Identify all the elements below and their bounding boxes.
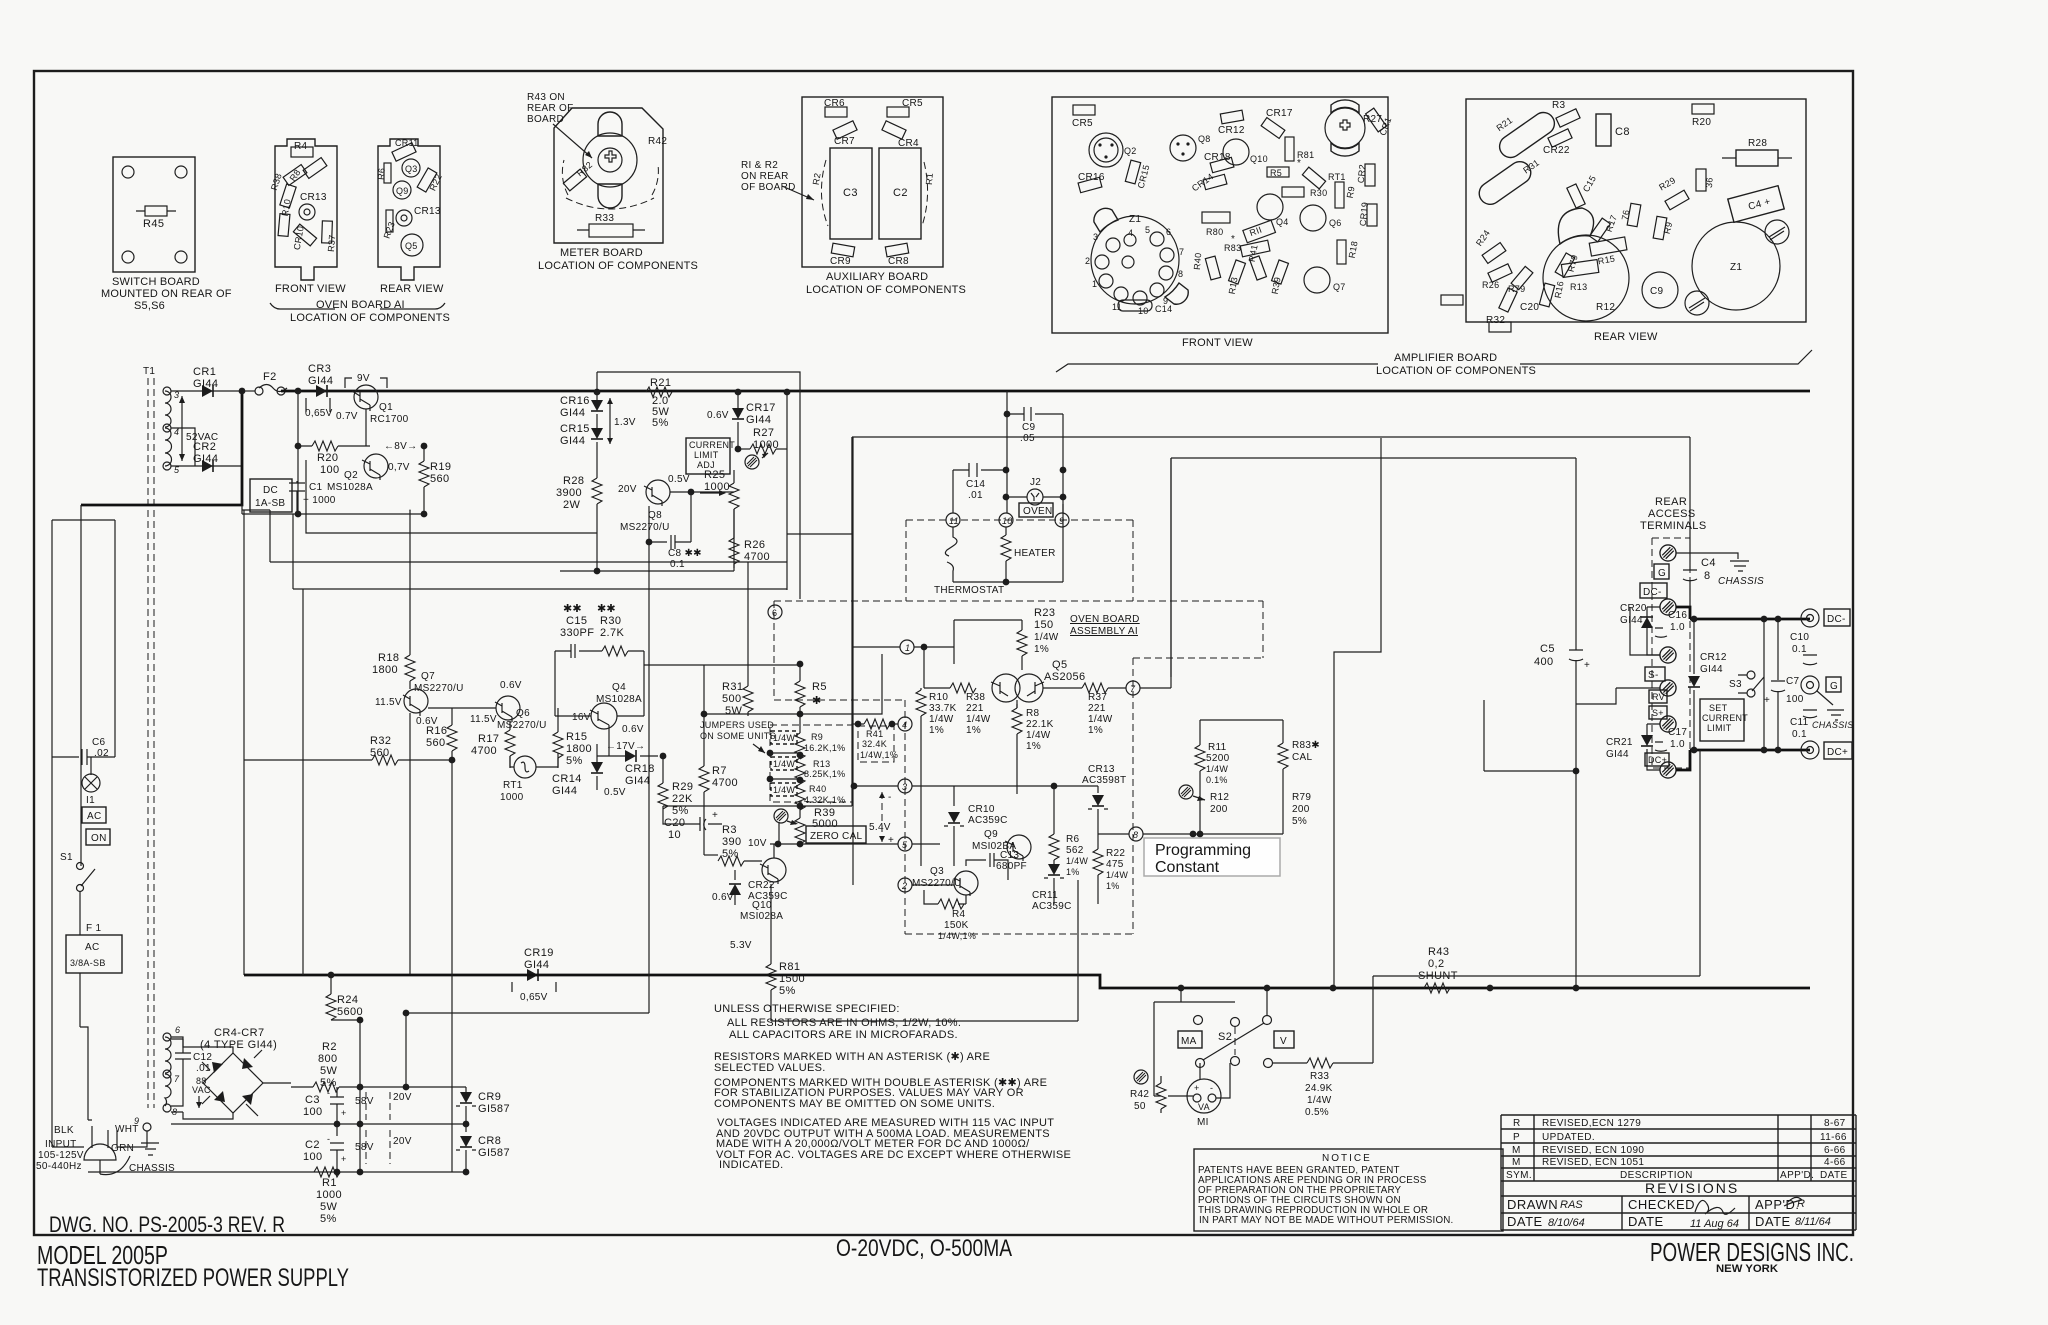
svg-text:CR18: CR18	[625, 763, 655, 775]
svg-text:10V: 10V	[748, 838, 767, 849]
svg-text:✱✱: ✱✱	[597, 603, 616, 615]
svg-text:MS1028A: MS1028A	[596, 694, 642, 705]
OVEN label box	[1019, 503, 1053, 517]
resistor R21 pill	[1495, 108, 1558, 162]
svg-text:4: 4	[902, 720, 907, 730]
resistor R81	[1285, 137, 1294, 161]
svg-text:GI44: GI44	[552, 785, 577, 797]
svg-text:11-66: 11-66	[1820, 1132, 1847, 1143]
svg-text:8.25K,1%: 8.25K,1%	[804, 769, 845, 779]
svg-text:C9: C9	[1650, 286, 1664, 297]
svg-text:VA: VA	[1198, 1102, 1210, 1112]
input plug	[84, 1144, 116, 1160]
svg-text:CR11: CR11	[1032, 890, 1058, 901]
svg-text:CR2: CR2	[1356, 164, 1368, 184]
diode CR17	[737, 392, 739, 408]
svg-text:7: 7	[1179, 247, 1184, 257]
svg-text:Q5: Q5	[405, 241, 418, 251]
boxed DC-	[1640, 583, 1667, 598]
bottom wire y1172	[88, 1171, 466, 1173]
oven bottom wire	[771, 880, 1078, 1021]
svg-text:R7: R7	[712, 765, 727, 777]
transistor Q1	[354, 385, 378, 409]
svg-text:4.32K,1%: 4.32K,1%	[804, 795, 845, 805]
svg-text:CR9: CR9	[478, 1091, 501, 1103]
left return vertical	[302, 589, 304, 975]
svg-text:20V: 20V	[393, 1136, 412, 1147]
svg-text:100: 100	[320, 464, 340, 476]
resistor R41 dashed box	[858, 726, 894, 762]
potentiometer R27	[1325, 108, 1365, 148]
svg-text:Q9: Q9	[396, 186, 409, 196]
svg-text:R20: R20	[1692, 117, 1711, 128]
svg-text:5600: 5600	[337, 1006, 363, 1018]
transistor Q5	[401, 234, 423, 256]
svg-text:IN PART MAY NOT BE MADE WITHOU: IN PART MAY NOT BE MADE WITHOUT PERMISSI…	[1199, 1215, 1453, 1226]
long vertical to zero cal row	[663, 437, 852, 806]
svg-text:OF BOARD: OF BOARD	[741, 182, 796, 193]
resistor R33	[589, 224, 633, 237]
svg-text:(4 TYPE GI44): (4 TYPE GI44)	[200, 1039, 277, 1051]
svg-text:5: 5	[902, 840, 908, 850]
resistor R8	[1016, 704, 1018, 708]
svg-text:4: 4	[1128, 228, 1133, 238]
svg-text:R17: R17	[478, 733, 499, 745]
screw	[1765, 220, 1789, 244]
svg-text:11.5V: 11.5V	[375, 697, 402, 708]
transistor Q3	[912, 884, 954, 886]
svg-text:CR21: CR21	[1606, 737, 1633, 748]
svg-text:CR16: CR16	[1078, 172, 1105, 183]
pin 3	[898, 779, 912, 793]
svg-text:Z1: Z1	[1129, 214, 1141, 225]
svg-text:TERMINALS: TERMINALS	[1640, 520, 1707, 532]
zener CR11	[1053, 860, 1055, 864]
svg-text:CR10: CR10	[968, 804, 995, 815]
resistor R33	[1273, 1062, 1307, 1064]
svg-text:R5: R5	[1270, 168, 1282, 178]
svg-text:5200: 5200	[1206, 753, 1230, 764]
svg-text:Q8: Q8	[1198, 134, 1211, 144]
capacitor C4	[1689, 437, 1691, 570]
capacitor C9	[1642, 272, 1678, 308]
svg-text:DC: DC	[263, 485, 278, 496]
svg-text:CR4-CR7: CR4-CR7	[214, 1027, 264, 1039]
svg-text:4700: 4700	[712, 777, 738, 789]
svg-text:C20: C20	[664, 817, 685, 829]
svg-text:800: 800	[318, 1053, 338, 1065]
resistor R83	[1240, 240, 1270, 257]
svg-text:F 1: F 1	[86, 923, 101, 934]
mid wire y1124	[171, 1123, 466, 1125]
svg-text:5%: 5%	[566, 755, 583, 767]
svg-text:CR13: CR13	[414, 206, 441, 217]
CURRENT LIMIT ADJ box	[686, 438, 730, 474]
capacitor C8	[1596, 114, 1611, 146]
resistor R24	[328, 972, 335, 979]
resistor R83 CAL	[1282, 720, 1284, 743]
svg-text:CR17: CR17	[1266, 108, 1293, 119]
svg-text:C9: C9	[1022, 422, 1036, 433]
svg-text:AC: AC	[85, 942, 100, 953]
svg-text:33.7K: 33.7K	[929, 703, 957, 714]
svg-text:8: 8	[1178, 269, 1183, 279]
svg-text:C6: C6	[92, 737, 106, 748]
svg-text:CR7: CR7	[834, 136, 855, 147]
svg-text:50-440Hz: 50-440Hz	[36, 1161, 82, 1172]
svg-text:C3: C3	[305, 1094, 320, 1106]
resistor R5	[1267, 167, 1289, 177]
diode CR12	[1220, 110, 1243, 124]
svg-text:1/4W: 1/4W	[773, 759, 795, 769]
svg-text:5%: 5%	[652, 417, 669, 429]
svg-text:1: 1	[905, 643, 910, 653]
svg-text:HEATER: HEATER	[1014, 548, 1056, 559]
wire H2 top right	[852, 436, 1690, 438]
wire bridge output row	[263, 1083, 291, 1087]
svg-text:1000: 1000	[316, 1189, 342, 1201]
svg-text:CR8: CR8	[478, 1135, 501, 1147]
transistor Q4	[1257, 194, 1283, 220]
left long verticals	[52, 505, 115, 1147]
svg-text:475: 475	[1106, 859, 1124, 870]
svg-text:GI44: GI44	[625, 775, 650, 787]
svg-text:GI44: GI44	[1700, 664, 1723, 675]
svg-text:JUMPERS USED: JUMPERS USED	[700, 720, 774, 730]
svg-text:0.7V: 0.7V	[336, 411, 358, 422]
svg-text:R80: R80	[1206, 227, 1223, 237]
svg-text:.01: .01	[968, 490, 983, 501]
jumper 1/4W labels	[771, 731, 797, 744]
svg-text:BLK: BLK	[54, 1125, 74, 1136]
svg-text:330PF: 330PF	[560, 627, 594, 639]
svg-text:CR18: CR18	[1204, 152, 1231, 163]
svg-text:R: R	[1513, 1118, 1521, 1129]
svg-text:SWITCH BOARD: SWITCH BOARD	[112, 276, 200, 288]
svg-text:0.5%: 0.5%	[1305, 1107, 1329, 1118]
diode CR2	[171, 465, 242, 467]
capacitor C9	[1004, 411, 1011, 418]
capacitor C2	[879, 148, 921, 239]
svg-text:1/4W: 1/4W	[1066, 856, 1088, 866]
resistor R32	[1489, 322, 1511, 332]
svg-text:8: 8	[1704, 570, 1711, 582]
0.65V annotation	[306, 398, 330, 412]
svg-text:RT1: RT1	[503, 780, 523, 791]
svg-text:R16: R16	[426, 725, 447, 737]
svg-text:CR4: CR4	[898, 138, 919, 149]
svg-text:5W: 5W	[320, 1201, 338, 1213]
svg-text:.05: .05	[1020, 433, 1035, 444]
connector pins 11 10 9	[946, 513, 960, 527]
svg-text:16V: 16V	[572, 712, 591, 723]
svg-text:R4: R4	[294, 141, 308, 152]
svg-text:GI44: GI44	[1606, 749, 1629, 760]
resistor CR2	[1365, 164, 1375, 186]
svg-text:REAR VIEW: REAR VIEW	[380, 283, 444, 295]
fuse F2	[242, 390, 255, 392]
svg-text:100: 100	[1786, 694, 1804, 705]
svg-text:0.1: 0.1	[1792, 644, 1807, 655]
svg-text:Q10: Q10	[752, 900, 772, 911]
svg-text:4-66: 4-66	[1824, 1157, 1846, 1168]
thermostat	[945, 527, 957, 582]
resistor R37	[1043, 687, 1082, 689]
resistor R21	[646, 387, 672, 397]
svg-text:CR16: CR16	[560, 395, 590, 407]
svg-text:MS1028A: MS1028A	[327, 482, 373, 493]
switch S2	[1154, 988, 1267, 1062]
svg-text:FRONT VIEW: FRONT VIEW	[275, 283, 346, 295]
svg-text:LIMIT: LIMIT	[1707, 723, 1732, 733]
vertical to C8 row from R27 side	[786, 392, 788, 590]
svg-text:MSI028A: MSI028A	[740, 911, 783, 922]
svg-text:Q8: Q8	[648, 510, 662, 521]
svg-text:CR14: CR14	[552, 773, 582, 785]
oven board rear outline	[378, 139, 440, 280]
resistor R38	[280, 184, 296, 208]
svg-text:1%: 1%	[1066, 867, 1080, 877]
svg-text:S5,S6: S5,S6	[134, 300, 165, 312]
resistor R17	[509, 722, 511, 730]
resistor R32	[244, 759, 372, 761]
svg-text:CURRENT: CURRENT	[1702, 713, 1748, 723]
svg-text:R24: R24	[337, 994, 358, 1006]
transistor Q9	[1007, 835, 1031, 859]
svg-text:0,2: 0,2	[1428, 958, 1445, 970]
staircase x1381 x1334	[1334, 438, 1381, 988]
svg-text:0,65V: 0,65V	[305, 408, 333, 419]
svg-text:CHASSIS: CHASSIS	[1718, 576, 1764, 587]
svg-text:DATE: DATE	[1755, 1214, 1791, 1229]
diode CR18	[625, 750, 636, 762]
svg-text:100: 100	[303, 1106, 323, 1118]
wire pin3	[854, 785, 898, 787]
svg-text:R19: R19	[430, 461, 451, 473]
svg-text:CR9: CR9	[830, 256, 851, 267]
heavy junction bus	[241, 391, 244, 466]
resistor R28	[1736, 150, 1778, 166]
auxiliary board outline	[802, 97, 943, 267]
svg-text:COMPONENTS MAY BE OMITTED ON S: COMPONENTS MAY BE OMITTED ON SOME UNITS.	[714, 1098, 995, 1110]
svg-text:560: 560	[430, 473, 450, 485]
svg-text:CR13: CR13	[1088, 764, 1115, 775]
svg-text:AC: AC	[87, 811, 102, 822]
svg-text:LIMIT: LIMIT	[694, 450, 719, 460]
svg-text:562: 562	[1066, 845, 1084, 856]
resistor R16	[1539, 283, 1554, 307]
pin 8	[1129, 827, 1143, 841]
svg-text:1/4W,1%: 1/4W,1%	[860, 750, 898, 760]
svg-text:Q1: Q1	[379, 402, 393, 413]
long vertical from R16	[451, 760, 453, 1172]
svg-text:DRAWN: DRAWN	[1507, 1197, 1558, 1212]
svg-text:R10: R10	[929, 692, 948, 703]
svg-text:7: 7	[174, 1074, 180, 1084]
capacitor C15	[1567, 184, 1585, 208]
svg-text:R4: R4	[952, 909, 966, 920]
svg-text:G: G	[1658, 568, 1666, 579]
svg-text:1000: 1000	[500, 792, 524, 803]
svg-text:1/4W: 1/4W	[1026, 730, 1051, 741]
svg-text:GI587: GI587	[478, 1103, 510, 1115]
potentiometer R12	[1179, 785, 1193, 799]
svg-text:C14: C14	[966, 479, 985, 490]
svg-text:CAL: CAL	[1292, 752, 1312, 763]
transistor Q10	[1223, 139, 1249, 165]
svg-text:NEW YORK: NEW YORK	[1716, 1263, 1778, 1275]
svg-text:1%: 1%	[1026, 741, 1041, 752]
svg-text:R38: R38	[966, 692, 985, 703]
svg-text:C3: C3	[843, 187, 858, 199]
svg-text:1%: 1%	[966, 725, 981, 736]
resistor R23	[386, 210, 393, 232]
svg-text:221: 221	[1088, 703, 1106, 714]
svg-text:0.5V: 0.5V	[604, 787, 626, 798]
svg-text:105-125V: 105-125V	[38, 1150, 84, 1161]
svg-text:RAS: RAS	[1560, 1199, 1583, 1211]
svg-text:+: +	[341, 1108, 347, 1118]
svg-text:UNLESS OTHERWISE SPECIFIED:: UNLESS OTHERWISE SPECIFIED:	[714, 1003, 900, 1015]
resistor R29	[1665, 190, 1689, 210]
wire pin5	[770, 843, 898, 845]
heavy bottom bus	[244, 975, 1810, 988]
svg-text:C20: C20	[1520, 302, 1539, 313]
svg-text:3: 3	[902, 782, 907, 792]
svg-text:1/4W: 1/4W	[773, 733, 795, 743]
svg-text:DATE: DATE	[1628, 1214, 1664, 1229]
svg-text:R42: R42	[1130, 1089, 1149, 1100]
potentiometer R42	[1134, 1070, 1148, 1084]
svg-text:ASSEMBLY AI: ASSEMBLY AI	[1070, 626, 1138, 637]
resistor R6	[1053, 786, 1055, 834]
svg-text:Q5: Q5	[1052, 659, 1067, 671]
svg-text:0.1%: 0.1%	[1206, 775, 1228, 785]
svg-text:LOCATION OF COMPONENTS: LOCATION OF COMPONENTS	[538, 260, 698, 272]
diode CR5	[1073, 105, 1095, 115]
svg-text:221: 221	[966, 703, 984, 714]
svg-text:-: -	[327, 1134, 330, 1144]
section box	[597, 372, 800, 599]
dashed R1	[922, 162, 928, 226]
switch board outline	[113, 157, 195, 272]
zener CR10	[953, 786, 955, 806]
58V 20V arrows row1	[366, 1092, 390, 1120]
svg-text:5: 5	[1145, 225, 1150, 235]
pin 6	[768, 605, 782, 619]
58V 20V arrows row2	[366, 1130, 390, 1164]
svg-text:MS2270/U: MS2270/U	[497, 720, 547, 731]
svg-text:R22: R22	[1106, 848, 1125, 859]
meter board outline	[554, 108, 663, 243]
diode CR18	[1210, 157, 1234, 172]
resistor R3	[1556, 109, 1580, 127]
svg-text:LOCATION OF COMPONENTS: LOCATION OF COMPONENTS	[1376, 365, 1536, 377]
svg-text:MS2270/U: MS2270/U	[620, 522, 670, 533]
potentiometer R39 ZERO CAL	[774, 809, 788, 823]
svg-text:UPDATED.: UPDATED.	[1542, 1132, 1595, 1143]
svg-text:CR17: CR17	[746, 402, 776, 414]
resistor R26	[733, 509, 735, 538]
svg-text:10: 10	[668, 829, 681, 841]
svg-text:1/4W: 1/4W	[1088, 714, 1113, 725]
svg-text:6: 6	[772, 608, 777, 618]
svg-text:R32: R32	[370, 735, 391, 747]
resistor R15	[557, 708, 559, 732]
svg-text:200: 200	[1210, 804, 1228, 815]
screw terminal S+	[1660, 716, 1676, 732]
svg-text:5%: 5%	[320, 1213, 337, 1225]
svg-text:CR12: CR12	[1700, 652, 1727, 663]
capacitor C4	[1728, 186, 1784, 223]
svg-text:680PF: 680PF	[996, 861, 1027, 872]
diode CR22	[1548, 129, 1572, 147]
resistor R28	[592, 478, 602, 504]
svg-text:C8: C8	[1615, 126, 1630, 138]
svg-text:7: 7	[1130, 684, 1136, 694]
diode CR9	[831, 243, 854, 257]
capacitor C3	[830, 148, 872, 239]
svg-text:*: *	[1231, 234, 1235, 245]
svg-text:F2: F2	[263, 371, 277, 383]
svg-text:CR5: CR5	[1072, 118, 1093, 129]
svg-text:REVISED, ECN 1090: REVISED, ECN 1090	[1542, 1145, 1644, 1156]
svg-text:R11: R11	[1208, 742, 1227, 753]
resistor CR19	[1367, 204, 1377, 226]
svg-text:GI44: GI44	[308, 375, 333, 387]
svg-text:11: 11	[949, 516, 959, 526]
svg-text:TRANSISTORIZED POWER SUPPLY: TRANSISTORIZED POWER SUPPLY	[37, 1264, 349, 1292]
svg-text:ON: ON	[91, 833, 107, 844]
svg-text:R83✱: R83✱	[1292, 740, 1320, 751]
svg-text:R31: R31	[722, 681, 743, 693]
resistor R29	[662, 756, 664, 783]
svg-text:ON SOME UNITS: ON SOME UNITS	[700, 731, 776, 741]
svg-text:GI44: GI44	[746, 414, 771, 426]
transistor Q3	[402, 159, 420, 177]
svg-text:←8V→: ←8V→	[384, 441, 417, 452]
svg-text:S-: S-	[1648, 670, 1659, 681]
svg-text:O-20VDC, O-500MA: O-20VDC, O-500MA	[836, 1235, 1012, 1262]
svg-text:REVISED,ECN 1279: REVISED,ECN 1279	[1542, 1118, 1641, 1129]
zener CR8	[465, 1124, 467, 1132]
svg-text:R79: R79	[1508, 284, 1525, 294]
svg-text:-: -	[327, 1088, 330, 1098]
screw terminal DC-	[1660, 599, 1676, 615]
svg-text:RT1: RT1	[1328, 172, 1346, 182]
svg-text:REAR OF: REAR OF	[527, 103, 574, 114]
svg-text:C17: C17	[1668, 727, 1687, 738]
svg-text:CR20: CR20	[1620, 603, 1647, 614]
svg-text:✱: ✱	[812, 695, 821, 707]
screw terminal G	[1660, 545, 1676, 561]
hybrid Z1 rear	[1692, 222, 1780, 310]
svg-text:1%: 1%	[1106, 881, 1120, 891]
svg-text:C14: C14	[1155, 304, 1172, 314]
resistor R4	[291, 147, 313, 157]
svg-text:4700: 4700	[471, 745, 497, 757]
diode CR14	[596, 744, 598, 762]
svg-text:+: +	[341, 1154, 347, 1164]
svg-text:2: 2	[1085, 256, 1090, 266]
svg-text:SELECTED VALUES.: SELECTED VALUES.	[714, 1062, 826, 1074]
svg-text:1/4W: 1/4W	[966, 714, 991, 725]
svg-text:C2: C2	[893, 187, 908, 199]
svg-text:R30: R30	[1310, 188, 1327, 198]
svg-text:I1: I1	[86, 795, 95, 806]
vertical x853 down	[852, 437, 854, 885]
svg-text:Constant: Constant	[1155, 859, 1220, 876]
